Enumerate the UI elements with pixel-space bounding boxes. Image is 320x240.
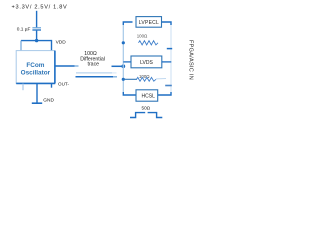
wire OUT- [76, 76, 114, 78]
oscillator U1 box [16, 51, 55, 84]
termination resistor right to ground [148, 113, 163, 118]
svg-text:FCom: FCom [26, 62, 44, 69]
node rail to R1 [122, 41, 125, 44]
svg-text:100Ω: 100Ω [139, 74, 150, 79]
pin stub OE [51, 84, 53, 88]
wire LVDS right stub [162, 61, 172, 63]
capacitor C1 plate top [32, 27, 41, 29]
node OUT+ rail junction [121, 64, 125, 68]
wire right rail [170, 23, 172, 94]
wire OUT+ from oscillator [55, 65, 75, 67]
svg-text:0.1 µF: 0.1 µF [17, 26, 31, 32]
wire OUT+ to rail [112, 65, 124, 67]
resistor R2 lead left [123, 78, 137, 80]
junction dot VDD tee [35, 39, 38, 42]
wire GND [36, 84, 38, 103]
wire VDD left drop [20, 41, 22, 51]
receiver LVDS box [131, 56, 162, 68]
resistor R1 zigzag [139, 41, 159, 45]
svg-text:trace: trace [88, 61, 100, 67]
capacitor C1 plate bottom [32, 29, 41, 31]
wire VDD horizontal rail [21, 40, 52, 42]
resistor R2 zigzag [137, 77, 157, 81]
differential trace highlight [76, 72, 112, 74]
wire rail to HCSL [123, 92, 136, 95]
wire supply vertical lower [36, 31, 38, 41]
ground [32, 102, 42, 104]
svg-text:Oscillator: Oscillator [21, 70, 51, 77]
svg-text:VDD: VDD [56, 39, 67, 45]
receiver HCSL box [136, 90, 158, 101]
svg-text:100Ω: 100Ω [137, 33, 148, 38]
wire rail to LVPECL [123, 22, 132, 25]
pin stub NC [22, 84, 24, 91]
svg-text:LVPECL: LVPECL [139, 20, 159, 26]
polarity dash minus lower [165, 85, 172, 87]
svg-text:50Ω: 50Ω [142, 105, 151, 110]
svg-text:+3.3V/ 2.5V/ 1.8V: +3.3V/ 2.5V/ 1.8V [12, 5, 68, 11]
polarity dash minus upper [167, 48, 172, 50]
svg-text:GND: GND [43, 98, 54, 104]
svg-text:HCSL: HCSL [142, 93, 156, 99]
wire HCSL to rail [158, 92, 171, 95]
svg-text:OUT-: OUT- [58, 81, 69, 86]
wire supply vertical upper [36, 11, 38, 28]
receiver LVPECL box [136, 17, 162, 28]
svg-text:LVDS: LVDS [140, 60, 153, 66]
wire LVPECL to rail [162, 22, 172, 25]
termination resistor left to ground [130, 113, 145, 118]
node rail to R2 [122, 78, 125, 81]
wire LVDS left stub [123, 61, 131, 63]
svg-text:FPGA/ASIC IN: FPGA/ASIC IN [188, 40, 194, 80]
resistor R2 lead right [156, 78, 166, 80]
wire left rail [122, 23, 124, 94]
wire VDD right drop [51, 40, 53, 51]
